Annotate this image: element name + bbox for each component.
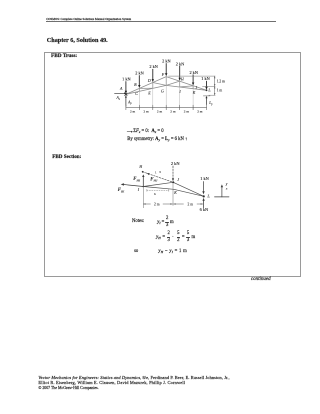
svg-text:A: A: [119, 86, 123, 91]
svg-text:G: G: [161, 90, 164, 94]
dim ref line support level: [209, 94, 215, 96]
projection line K: [192, 89, 194, 110]
svg-text:6 kN: 6 kN: [200, 207, 209, 212]
wire bottom chord G-L: [166, 85, 206, 90]
svg-text:Ax: Ax: [115, 96, 120, 101]
svg-text:FHJ: FHJ: [150, 177, 158, 182]
chapter title: [47, 37, 108, 44]
node H dot: [142, 171, 144, 173]
notes line 2: [156, 232, 195, 244]
wire top chord F-L: [166, 77, 206, 91]
svg-text:F: F: [161, 73, 165, 77]
node L dot: [203, 195, 205, 197]
section dim projection I: [142, 187, 144, 208]
wire member B-C: [138, 88, 140, 91]
svg-text:3: 3: [159, 170, 161, 174]
mini dim I-K dashed: [147, 189, 169, 191]
main box: [44, 52, 301, 277]
load arrow 1 kN at A: [125, 82, 127, 94]
section dim projection K: [172, 183, 174, 206]
svg-text:1.2 m: 1.2 m: [217, 79, 225, 83]
wire member H-I: [179, 81, 181, 87]
svg-text:1: 1: [155, 171, 157, 175]
reaction arrow Ax: [115, 92, 127, 94]
member I-J: [143, 182, 173, 186]
svg-text:1 kN: 1 kN: [122, 77, 130, 82]
wire member J-K: [192, 86, 194, 89]
reaction 6 kN at L: [202, 198, 204, 208]
dimension ticks: [126, 105, 207, 110]
projection line E: [152, 89, 154, 110]
svg-text:2 m: 2 m: [188, 202, 194, 206]
projection line C: [138, 92, 140, 110]
svg-text:H: H: [180, 77, 184, 81]
dim ref line F level: [169, 75, 216, 77]
svg-text:H: H: [138, 165, 142, 169]
svg-text:I: I: [137, 187, 140, 192]
wire member B-E: [139, 87, 153, 89]
svg-text:1 kN: 1 kN: [200, 176, 209, 181]
member K-L: [174, 189, 204, 196]
svg-text:2 m: 2 m: [170, 109, 176, 113]
load arrow 2 kN at H: [179, 66, 181, 81]
svg-text:2 m: 2 m: [144, 109, 150, 113]
svg-text:2 kN: 2 kN: [162, 59, 170, 64]
svg-text:J: J: [177, 177, 179, 182]
notes line 3: [134, 249, 138, 254]
svg-text:B: B: [134, 83, 137, 87]
FBD Section label: [52, 154, 81, 160]
load arrow 2 kN at J: [192, 75, 194, 86]
svg-text:FIK: FIK: [118, 188, 125, 193]
dimension base line: [126, 106, 207, 108]
svg-text:2 kN: 2 kN: [176, 61, 184, 66]
svg-text:FHI: FHI: [133, 177, 141, 182]
svg-text:L: L: [207, 88, 211, 93]
vertical dimension line right: [214, 76, 216, 95]
equation line 1: [133, 129, 149, 134]
load arrow 2 kN at B: [138, 76, 140, 89]
continued: [251, 277, 271, 282]
equation line 2: [127, 137, 187, 142]
svg-text:2 m: 2 m: [154, 203, 160, 207]
load 1 kN at L: [202, 182, 204, 195]
force FHJ dashed line of action: [143, 172, 174, 183]
wire member I-J: [180, 86, 193, 87]
node L marker: [206, 89, 208, 91]
node I dot: [143, 186, 145, 188]
load arrow 2 kN at F: [165, 64, 167, 77]
wire member G-H: [166, 81, 180, 85]
wire member F-G: [165, 77, 167, 86]
svg-text:2 m: 2 m: [184, 109, 190, 113]
equation arrow glyph: [127, 131, 133, 133]
svg-text:L: L: [206, 194, 210, 199]
svg-text:Ay: Ay: [127, 100, 132, 105]
footer: [38, 375, 229, 380]
svg-text:K: K: [173, 190, 177, 195]
load 2 kN at J: [172, 166, 174, 181]
wire top chord A-F: [126, 77, 166, 95]
wire member D-G: [153, 83, 166, 86]
section dim line: [143, 203, 203, 205]
force FIK arrow: [121, 183, 144, 186]
header underline: [46, 21, 276, 22]
header text: [46, 17, 131, 21]
axes marker: [215, 184, 230, 197]
svg-text:E: E: [147, 91, 151, 95]
member J-L: [173, 182, 204, 196]
support tick at L: [203, 95, 210, 97]
load arrow 2 kN at D: [152, 69, 154, 82]
svg-text:Ly: Ly: [208, 101, 213, 106]
wire member D-E: [152, 83, 154, 89]
svg-text:C: C: [135, 92, 138, 96]
force FHJ arrowhead: [147, 173, 150, 175]
load arrow 1 kN at L: [205, 81, 207, 90]
node J dot: [172, 181, 174, 183]
force FHI arrow: [142, 174, 144, 186]
projection line G: [165, 86, 167, 110]
svg-text:J: J: [195, 86, 197, 90]
projection line I: [179, 87, 181, 110]
svg-text:1 kN: 1 kN: [201, 76, 209, 81]
wire bottom chord A-G: [126, 85, 166, 94]
svg-text:2 m: 2 m: [197, 109, 203, 113]
svg-text:2 kN: 2 kN: [189, 70, 197, 75]
svg-text:1 m: 1 m: [217, 89, 223, 93]
reaction arrow Ay: [125, 95, 127, 106]
dimension labels 2 m: [130, 109, 203, 113]
svg-text:2 kN: 2 kN: [135, 70, 143, 75]
member I-K: [143, 187, 174, 190]
svg-text:D: D: [147, 79, 151, 83]
FBD Truss label: [51, 53, 77, 59]
svg-text:2 m: 2 m: [157, 109, 163, 113]
svg-text:2 m: 2 m: [130, 109, 136, 113]
notes line 1: [132, 219, 144, 224]
svg-text:K: K: [192, 91, 196, 95]
dim ref line G level: [203, 85, 216, 87]
svg-text:2 kN: 2 kN: [149, 64, 157, 69]
svg-text:I: I: [178, 90, 181, 94]
svg-text:2 kN: 2 kN: [171, 161, 180, 166]
node A marker: [125, 93, 127, 95]
svg-text:b: b: [154, 192, 156, 196]
reaction arrow Ly: [206, 96, 208, 105]
svg-text:x: x: [225, 186, 228, 190]
